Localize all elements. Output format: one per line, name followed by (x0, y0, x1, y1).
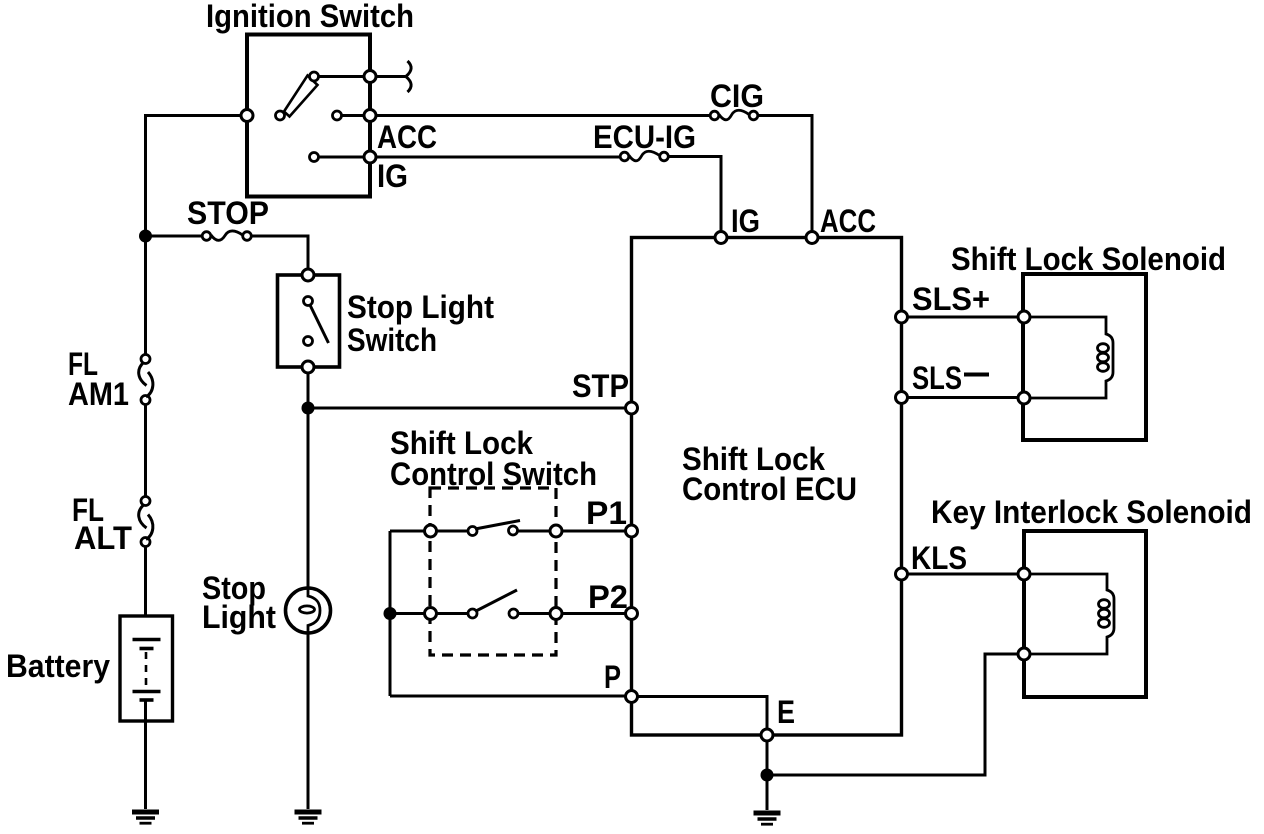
svg-text:Control ECU: Control ECU (682, 471, 857, 507)
wire: FL ALT to battery segment (144, 542, 147, 616)
wire: P1 row right segment to ECU (518, 530, 626, 533)
stop light switch bottom terminal contact (302, 361, 314, 373)
ignition switch AM terminal contact (364, 71, 376, 83)
wire: lever tip to AM terminal (318, 75, 364, 78)
wire: P2 row left segment (390, 612, 468, 615)
svg-text:ACC: ACC (377, 119, 437, 155)
svg-text:ECU-IG: ECU-IG (593, 119, 696, 155)
wire: stop light to ground (307, 633, 310, 809)
svg-text:E: E (777, 694, 795, 730)
ECU terminal KLS (896, 568, 908, 580)
svg-text:AM1: AM1 (68, 376, 129, 412)
ignition switch battery terminal contact (241, 110, 253, 122)
wire: switch left branch vertical (389, 531, 392, 696)
P1 switch left boundary contact (425, 525, 437, 537)
shift lock solenoid bottom terminal contact (1018, 392, 1030, 404)
ECU terminal P2 (626, 608, 638, 620)
P1 switch inner right contact (509, 526, 518, 535)
wire: IG inner contact to terminal (319, 156, 365, 159)
P1 switch lever (475, 521, 520, 530)
fusible link FL AM1 (139, 355, 153, 405)
node: junction stop light / STP (302, 402, 315, 415)
shift lock control switch dashed box (430, 488, 556, 655)
ECU terminal P (626, 691, 638, 703)
ignition switch IG inner contact (310, 153, 319, 162)
wire: SLS+ to solenoid (908, 316, 1019, 319)
svg-text:SLS: SLS (912, 360, 962, 396)
wire: battery feed left vertical + top run to ignition (146, 116, 248, 360)
svg-text:P: P (604, 659, 621, 695)
ECU terminal SLS- (896, 392, 908, 404)
wire: P2 row right segment to ECU (518, 612, 625, 615)
shift lock solenoid top terminal contact (1018, 311, 1030, 323)
svg-text:P2: P2 (588, 579, 628, 615)
node: junction on P2 row (384, 607, 397, 620)
stop light switch top terminal contact (302, 269, 314, 281)
svg-text:IG: IG (731, 203, 760, 239)
svg-text:Stop Light: Stop Light (347, 289, 494, 325)
stop light switch box (278, 275, 340, 367)
wire: ECU-IG fuse down to ECU IG (669, 157, 722, 233)
wire: AM terminal stub to other circuits (376, 75, 405, 78)
wire: junction to ground (766, 775, 769, 810)
svg-text:Switch: Switch (347, 322, 437, 358)
fusible link FL ALT (139, 497, 153, 547)
svg-text:CIG: CIG (710, 78, 764, 114)
wire: E down to ground junction (766, 741, 769, 775)
ignition switch IG terminal contact (364, 151, 376, 163)
ECU box: Shift Lock Control ECU (632, 238, 902, 736)
ignition switch rotor pivot contact (276, 111, 285, 120)
shift lock solenoid coil L1 (1030, 317, 1113, 398)
key interlock solenoid coil L2 (1030, 574, 1114, 654)
wire: STOP fuse to stop light switch (252, 236, 309, 275)
svg-text:STP: STP (572, 368, 629, 404)
ground: ECU E ground (754, 813, 781, 824)
ECU terminal ACC (806, 232, 818, 244)
P2 switch left boundary contact (425, 608, 437, 620)
battery BAT (120, 616, 173, 721)
P2 switch inner left contact (468, 609, 477, 618)
fuse STOP (202, 231, 251, 240)
wire: KLS to solenoid (908, 573, 1019, 576)
svg-text:Ignition Switch: Ignition Switch (206, 0, 414, 34)
ECU terminal IG (715, 232, 727, 244)
ECU terminal E (761, 729, 773, 741)
stop light switch inner top contact (304, 297, 313, 306)
stop light switch lever (310, 305, 329, 343)
wire: IG terminal to ECU-IG fuse (376, 156, 620, 159)
lamp: stop light bulb (286, 588, 331, 633)
wire: CIG fuse down to ECU ACC (758, 116, 812, 233)
wire: bottom run to ECU P (390, 695, 625, 698)
svg-text:ALT: ALT (74, 520, 132, 556)
wire: FL AM1 to FL ALT segment (144, 400, 147, 501)
ground: battery ground (132, 812, 159, 823)
ECU terminal STP (626, 402, 638, 414)
wire: ground junction to key interlock return (767, 654, 1018, 775)
ignition switch ACC terminal contact (364, 110, 376, 122)
fuse CIG (710, 110, 758, 120)
wire: junction down to stop light (307, 408, 310, 588)
connector hook symbol (406, 61, 411, 92)
ignition switch box (247, 35, 370, 197)
wire: SLS- to solenoid (908, 396, 1019, 399)
ignition switch lever (284, 76, 318, 117)
ECU terminal SLS+ (896, 311, 908, 323)
svg-text:P1: P1 (586, 495, 627, 531)
ground: stop light ground (295, 812, 322, 823)
svg-text:Key Interlock Solenoid: Key Interlock Solenoid (931, 494, 1252, 530)
svg-text:STOP: STOP (187, 195, 269, 231)
P2 switch lever (476, 590, 517, 611)
wire: junction to ECU STP (308, 407, 625, 410)
stop light switch inner bottom contact (304, 337, 313, 346)
key interlock solenoid bottom terminal contact (1018, 648, 1030, 660)
wire: ECU internal P to E (638, 697, 768, 730)
ignition switch lever tip contact (310, 72, 319, 81)
svg-text:IG: IG (377, 158, 408, 194)
wire: stop light switch to junction (307, 373, 310, 408)
svg-text:SLS+: SLS+ (912, 281, 990, 317)
P1 switch right boundary contact (550, 525, 562, 537)
node: junction of STOP branch on battery feed (139, 230, 152, 243)
svg-text:ACC: ACC (820, 203, 876, 239)
svg-text:Shift Lock Solenoid: Shift Lock Solenoid (951, 241, 1226, 277)
ECU terminal P1 (626, 525, 638, 537)
wire: P1 row left segment (390, 530, 468, 533)
wire: battery to ground (144, 700, 147, 809)
svg-text:Battery: Battery (6, 648, 110, 684)
P2 switch inner right contact (509, 609, 518, 618)
node: ground junction (761, 769, 774, 782)
ignition switch ACC inner contact (333, 111, 342, 120)
svg-text:KLS: KLS (911, 540, 967, 576)
shift lock solenoid box (1023, 274, 1146, 440)
P1 switch inner left contact (468, 527, 477, 536)
key interlock solenoid box (1024, 531, 1146, 697)
wire: ACC inner contact to terminal (342, 114, 365, 117)
key interlock solenoid top terminal contact (1018, 568, 1030, 580)
fuse ECU-IG (620, 151, 668, 161)
svg-text:Light: Light (202, 599, 276, 635)
wire: ACC terminal to CIG fuse (376, 114, 710, 117)
wire: STOP branch horizontal (146, 235, 203, 238)
svg-text:Control Switch: Control Switch (390, 456, 597, 492)
P2 switch right boundary contact (550, 608, 562, 620)
